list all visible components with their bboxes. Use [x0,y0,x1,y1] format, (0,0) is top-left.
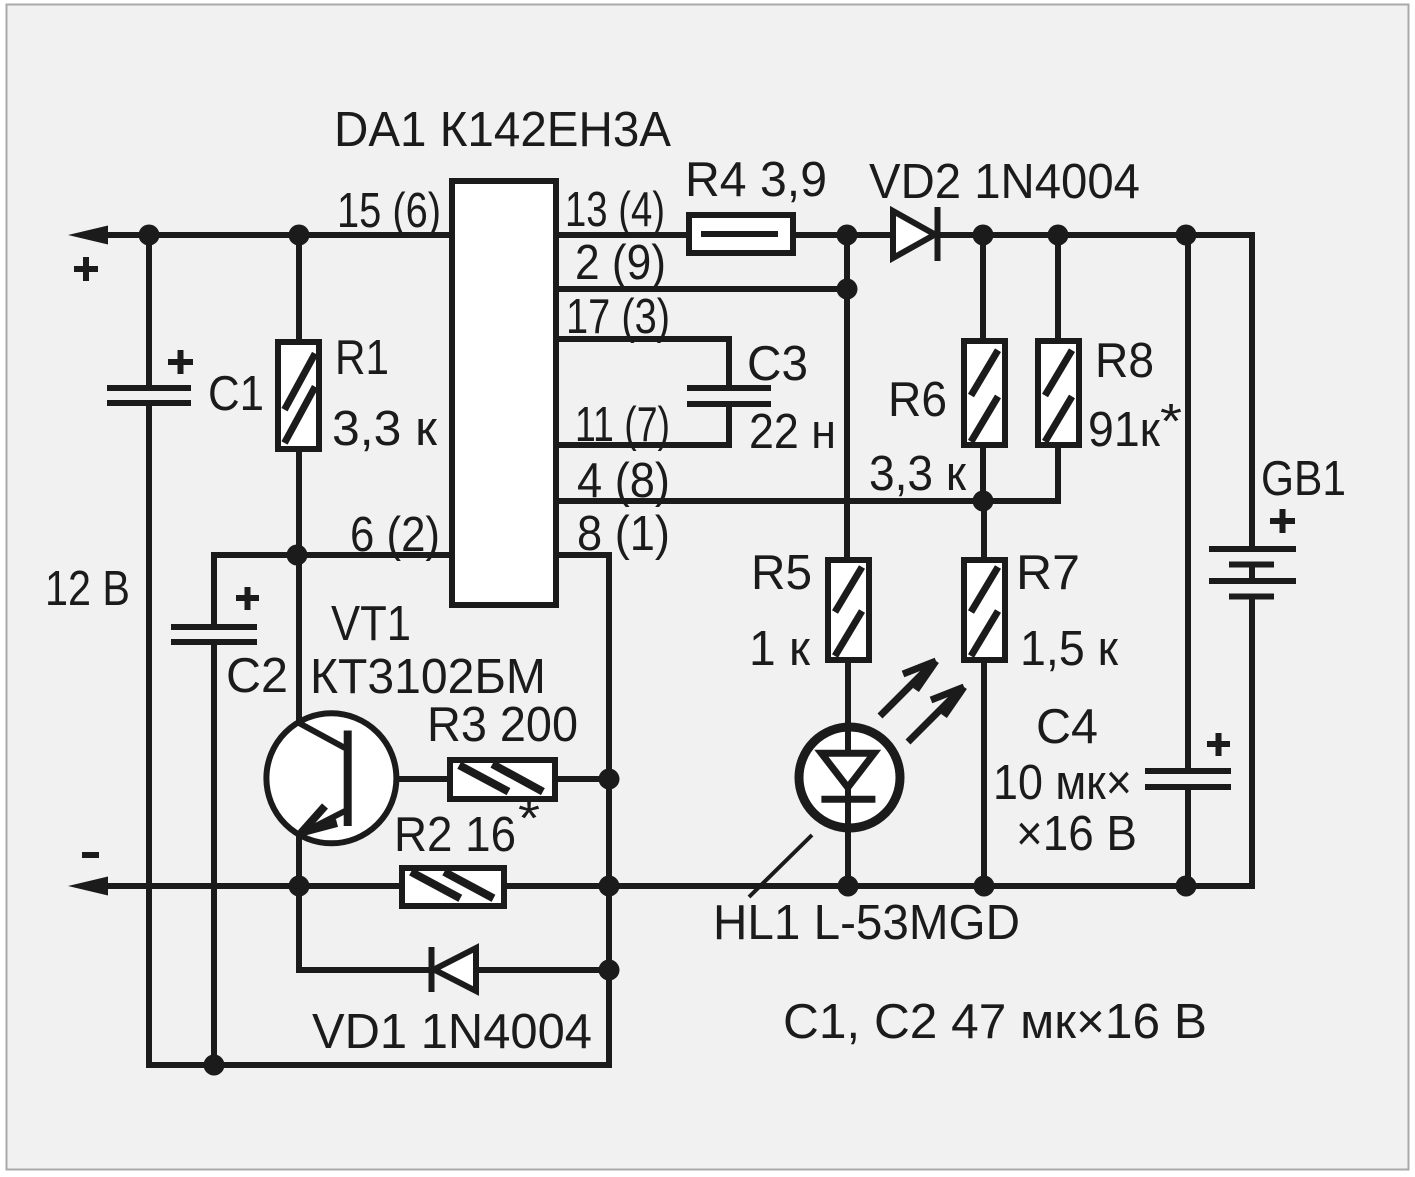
capacitor C4 [1145,771,1231,787]
input arrow + (top left) [68,226,108,245]
wire R7 bottom lead [981,660,987,886]
wire R5/HL1 lead [845,660,851,886]
svg-text:R7: R7 [1016,546,1080,600]
svg-text:17 (3): 17 (3) [566,290,670,344]
node emitter/bottom [289,876,310,897]
node R2 right [599,876,620,897]
svg-text:R4 3,9: R4 3,9 [685,153,827,207]
svg-text:GB1: GB1 [1261,452,1346,506]
wire pin 17(3) to C3 [559,339,729,388]
wire VD1 row [299,886,431,970]
wire top rail [100,235,1252,549]
svg-text:R3 200: R3 200 [427,698,578,752]
wire C4 top lead [1185,235,1191,771]
svg-text:C3: C3 [747,337,808,391]
node pin2 [837,279,858,300]
svg-text:8 (1): 8 (1) [577,507,670,561]
wire bottom loop (8(1) down, rail y=1065, up to C1) [149,403,609,1065]
svg-text:R1: R1 [335,331,389,385]
node HL1/bottom [838,876,859,897]
wire R4/R5 vertical [844,235,850,560]
wire C4 bottom lead [1185,787,1191,886]
svg-text:22 н: 22 н [749,405,836,459]
svg-text:13 (4): 13 (4) [565,183,665,237]
node C4/top [1176,225,1197,246]
svg-text:3,3 к: 3,3 к [332,402,438,456]
op-amp/regulator DA1 box [452,181,556,605]
HL1 leader line [749,835,812,897]
wire R6 bottom lead [980,445,986,501]
svg-text:R6: R6 [888,373,947,427]
LED light arrow 2 [908,687,964,742]
diode VD1 [432,947,477,992]
svg-text:2 (9): 2 (9) [575,236,666,290]
LED HL1 [799,726,900,829]
wire C2 branch 6(2) [214,555,449,628]
wire C3 to pin 11(7) [559,404,729,445]
svg-text:R5: R5 [751,546,812,600]
svg-text:6 (2): 6 (2) [350,508,440,562]
svg-text:11 (7): 11 (7) [575,398,670,452]
svg-text:VD1 1N4004: VD1 1N4004 [312,1005,592,1059]
diode VD2 [893,207,938,261]
resistor R1 [278,342,319,449]
svg-text:*: * [518,792,540,846]
resistor R6 [964,341,1005,445]
wire R1 bottom lead [296,449,302,558]
svg-text:C1: C1 [208,367,264,421]
wire R7 top lead [981,501,987,560]
node R7/bottom [974,876,995,897]
node R6/top [973,225,994,246]
wire C1 top lead [146,232,152,388]
node R4/VD2 [837,225,858,246]
capacitor C2 [171,627,257,642]
svg-text:10 мк×: 10 мк× [993,756,1132,810]
svg-text:12 В: 12 В [45,562,130,616]
svg-text:91к: 91к [1088,403,1161,457]
svg-text:VD2 1N4004: VD2 1N4004 [869,155,1140,209]
minus sign input [82,852,99,858]
svg-text:C4: C4 [1036,700,1098,754]
transistor VT1 [266,713,396,843]
node C4/bottom [1176,876,1197,897]
svg-text:15 (6): 15 (6) [337,184,441,238]
node R1/top [289,225,310,246]
svg-text:КТ3102БМ: КТ3102БМ [310,650,546,704]
svg-text:×16 В: ×16 В [1016,807,1137,861]
wire R6 top lead [980,235,986,341]
wire C2 bottom lead [211,642,217,1065]
svg-text:4 (8): 4 (8) [577,454,670,508]
svg-text:VT1: VT1 [331,597,411,651]
node C2/rail [204,1055,225,1076]
plus C4 [1207,733,1230,756]
capacitor C3 [687,388,771,404]
capacitor C1 [107,388,191,403]
battery GB1 [1209,549,1296,597]
resistor R7 [964,560,1005,660]
resistor R3 [450,760,555,799]
plus C2 [236,587,259,610]
node VD1 right [599,960,620,981]
input arrow - (bottom left) [68,877,108,896]
node C1/top [139,225,160,246]
wire R8 top lead [1055,235,1061,341]
svg-text:C1, C2 47 мк×16 В: C1, C2 47 мк×16 В [783,995,1207,1049]
node R8/top [1048,225,1069,246]
resistor R8 [1038,341,1079,445]
wire pin 2(9) [559,286,847,292]
plus C1 [168,350,193,374]
wire VT1 collector [296,555,302,724]
wire VD1 right [474,967,609,973]
LED light arrow 1 [880,661,936,716]
resistor R4 [689,215,793,253]
wire VT1 emitter down [296,831,302,889]
svg-text:DA1 К142ЕН3А: DA1 К142ЕН3А [334,103,671,157]
svg-text:HL1 L-53MGD: HL1 L-53MGD [713,896,1020,950]
svg-text:C2: C2 [226,649,288,703]
wire R3 right lead [555,776,609,782]
resistor R5 [828,560,869,660]
resistor R2 [402,868,504,906]
wire R1 top lead [296,232,302,342]
wire base to R3 [348,776,450,782]
node R6/R7 [973,491,994,512]
svg-text:1 к: 1 к [749,622,811,676]
node R3 right [599,769,620,790]
wire pin 4(8) to R8 [559,445,1058,501]
svg-text:R8: R8 [1095,334,1154,388]
plus sign input [74,257,98,281]
svg-text:R2 16: R2 16 [394,808,516,862]
node pin6/R1 [287,545,308,566]
wire bottom rail [100,596,1252,886]
svg-text:1,5 к: 1,5 к [1020,622,1119,676]
svg-text:3,3 к: 3,3 к [869,447,967,501]
plus GB1 [1270,509,1295,533]
svg-text:*: * [1160,395,1182,449]
